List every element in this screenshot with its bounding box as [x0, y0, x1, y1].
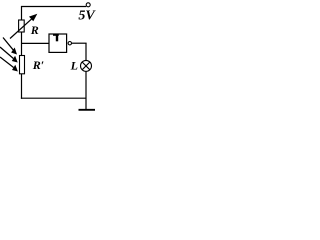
svg-text:5V: 5V	[78, 8, 96, 23]
svg-text:L: L	[70, 59, 78, 73]
svg-text:R′: R′	[32, 58, 44, 72]
svg-text:R: R	[30, 23, 39, 37]
